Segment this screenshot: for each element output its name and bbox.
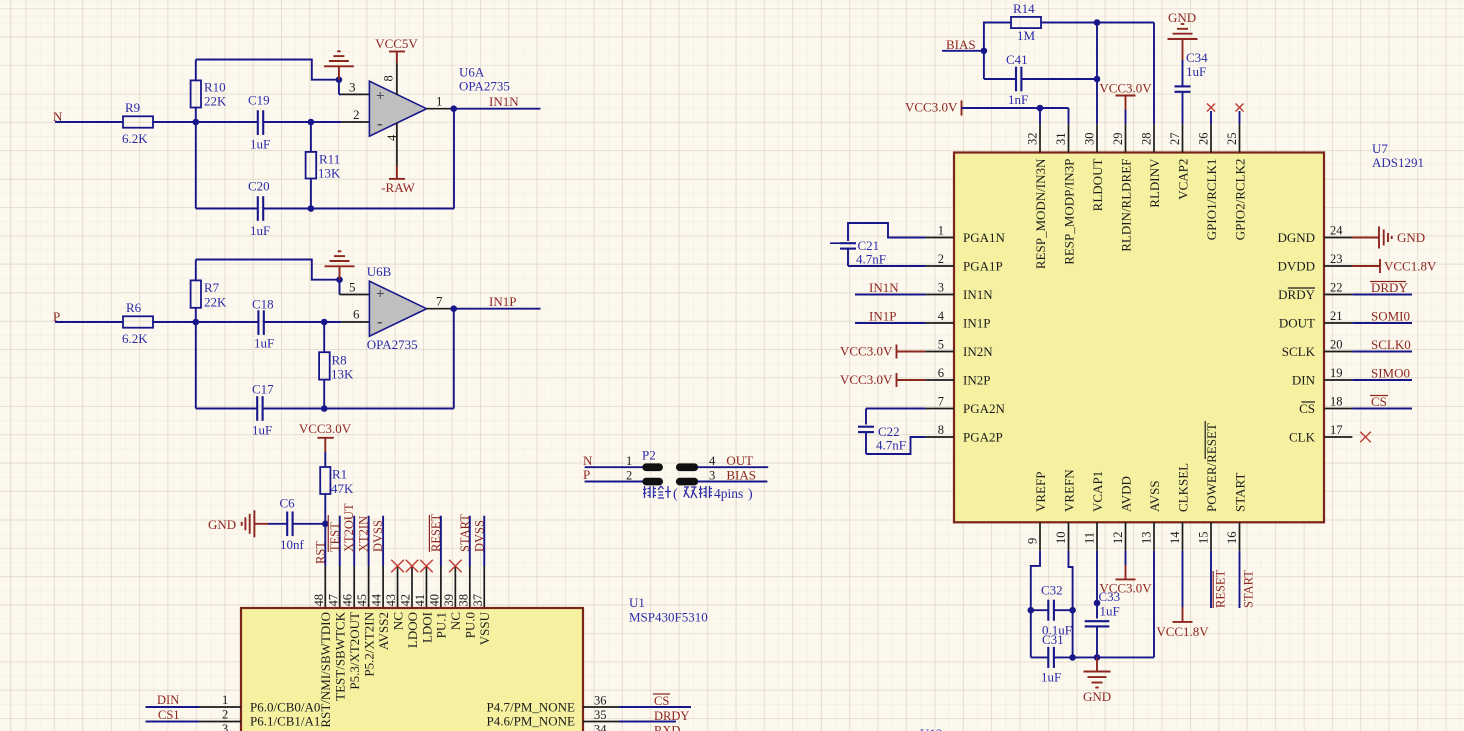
pin 24 stub (U7 right) bbox=[1324, 237, 1352, 239]
svg-text:CS: CS bbox=[1299, 401, 1315, 416]
svg-text:LDOI: LDOI bbox=[419, 612, 434, 643]
svg-text:31: 31 bbox=[1054, 133, 1068, 146]
pin 28 stub (U7 top) bbox=[1153, 124, 1155, 152]
net CS (U7 pin 18) bbox=[1352, 408, 1412, 410]
svg-text:VCAP1: VCAP1 bbox=[1090, 471, 1105, 512]
wire U1 pin 41 n/c bbox=[425, 566, 427, 608]
wire bottom rail U6A bbox=[263, 208, 454, 210]
pin 5 stub (U7 left) bbox=[926, 351, 954, 353]
net SCLK0 (U7 pin 20) bbox=[1352, 351, 1412, 353]
pin 16 stub (U7 bottom) bbox=[1239, 522, 1241, 550]
svg-text:LDOO: LDOO bbox=[405, 612, 420, 648]
svg-text:42: 42 bbox=[399, 594, 413, 607]
svg-text:P2: P2 bbox=[642, 448, 656, 463]
wire U7 pin 8 jog bbox=[866, 437, 926, 454]
svg-text:OUT: OUT bbox=[726, 453, 753, 468]
svg-text:5: 5 bbox=[938, 338, 944, 352]
svg-text:1: 1 bbox=[222, 693, 228, 707]
svg-text:22K: 22K bbox=[204, 94, 227, 109]
pin 3 stub (U7 left) bbox=[926, 294, 954, 296]
wire R6 to junction bbox=[153, 321, 196, 323]
svg-text:14: 14 bbox=[1168, 531, 1182, 544]
svg-text:22K: 22K bbox=[204, 295, 227, 310]
svg-text:47: 47 bbox=[326, 594, 340, 607]
junction bbox=[1069, 654, 1076, 661]
net DRDY (U7 pin 22) bbox=[1352, 294, 1412, 296]
svg-text:CS1: CS1 bbox=[158, 708, 180, 722]
svg-text:DVSS: DVSS bbox=[472, 520, 486, 552]
svg-text:1uF: 1uF bbox=[254, 336, 274, 351]
svg-text:(: ( bbox=[673, 487, 678, 502]
svg-text:9: 9 bbox=[1026, 538, 1040, 544]
svg-text:IN1P: IN1P bbox=[963, 315, 990, 330]
svg-text:SCLK0: SCLK0 bbox=[1371, 337, 1411, 352]
svg-text:): ) bbox=[748, 487, 753, 502]
svg-text:DRDY: DRDY bbox=[654, 709, 689, 723]
ground U6A bbox=[336, 76, 343, 83]
junction bbox=[1094, 76, 1101, 83]
wire U1 pin 40 bbox=[440, 516, 442, 566]
svg-text:19: 19 bbox=[1330, 366, 1343, 380]
svg-text:1: 1 bbox=[626, 454, 632, 468]
wire C19 to pin 2 bbox=[263, 121, 311, 123]
svg-text:27: 27 bbox=[1168, 133, 1182, 146]
svg-text:1uF: 1uF bbox=[1041, 670, 1061, 685]
wire feedback U6B bbox=[453, 309, 455, 409]
ground C6 bbox=[268, 523, 287, 525]
wire to U7 pin 32 bbox=[1039, 108, 1041, 124]
svg-text:48: 48 bbox=[312, 594, 326, 607]
wire feedback U6A bbox=[453, 109, 455, 209]
svg-text:PU.0: PU.0 bbox=[463, 612, 478, 638]
pin 9 stub (U7 bottom) bbox=[1039, 522, 1041, 550]
svg-text:R8: R8 bbox=[332, 353, 347, 368]
svg-text:SOMI0: SOMI0 bbox=[1371, 309, 1410, 324]
svg-text:OPA2735: OPA2735 bbox=[367, 337, 418, 352]
svg-text:3: 3 bbox=[938, 281, 944, 295]
svg-text:2: 2 bbox=[222, 708, 228, 722]
wire U7 pin 9 jog bbox=[1031, 551, 1040, 658]
svg-text:23: 23 bbox=[1330, 252, 1343, 266]
pin 4 stub (U7 left) bbox=[926, 322, 954, 324]
svg-text:C17: C17 bbox=[252, 382, 274, 397]
capacitor C33 bbox=[1096, 551, 1098, 619]
capacitor C34 bbox=[1182, 60, 1184, 86]
svg-text:44: 44 bbox=[370, 593, 384, 606]
svg-text:VREFP: VREFP bbox=[1033, 472, 1048, 512]
svg-text:PGA2P: PGA2P bbox=[963, 429, 1003, 444]
svg-text:C20: C20 bbox=[248, 179, 270, 194]
svg-text:43: 43 bbox=[384, 594, 398, 607]
svg-text:C19: C19 bbox=[248, 93, 270, 108]
svg-text:10nf: 10nf bbox=[280, 537, 305, 552]
svg-text:VCC5V: VCC5V bbox=[375, 36, 418, 51]
net IN1P to U7 pin 4 bbox=[855, 322, 926, 324]
pin 30 stub (U7 top) bbox=[1096, 124, 1098, 152]
capacitor C19 bbox=[196, 121, 258, 123]
svg-text:38: 38 bbox=[456, 594, 470, 607]
svg-text:SCLK: SCLK bbox=[1282, 344, 1316, 359]
junction bbox=[450, 305, 457, 312]
pin 18 stub (U7 right) bbox=[1324, 408, 1352, 410]
svg-text:36: 36 bbox=[594, 694, 607, 708]
svg-text:34: 34 bbox=[594, 723, 607, 731]
pin 17 stub (U7 right) bbox=[1324, 436, 1352, 438]
svg-text:6.2K: 6.2K bbox=[122, 331, 148, 346]
wire top rail U6B bbox=[196, 260, 340, 280]
svg-text:DIN: DIN bbox=[1292, 372, 1316, 387]
svg-text:7: 7 bbox=[436, 294, 443, 309]
svg-text:VREFN: VREFN bbox=[1061, 469, 1076, 512]
resistor R10 bbox=[195, 108, 197, 123]
IC U7 body bbox=[954, 153, 1324, 523]
junction bbox=[193, 119, 200, 126]
junction bbox=[308, 119, 315, 126]
svg-text:DIN: DIN bbox=[157, 693, 179, 707]
resistor R11 bbox=[310, 122, 312, 152]
svg-text:11: 11 bbox=[1083, 532, 1097, 544]
svg-text:DOUT: DOUT bbox=[1279, 315, 1315, 330]
wire C18 to pin 6 bbox=[264, 321, 324, 323]
op-amp U6A pin 3 bbox=[338, 80, 340, 95]
net START (U7 pin 16) bbox=[1239, 551, 1241, 608]
wire P2 pin 1 bbox=[585, 466, 643, 468]
pin 25 stub (U7 top) bbox=[1239, 124, 1241, 152]
label header annotation bbox=[643, 486, 656, 498]
svg-text:C32: C32 bbox=[1041, 583, 1063, 598]
svg-text:DVSS: DVSS bbox=[371, 520, 385, 552]
svg-text:4: 4 bbox=[385, 134, 399, 141]
wire U1 pin 43 n/c bbox=[397, 566, 399, 608]
wire U1 pin 35 / net DRDY bbox=[583, 721, 619, 723]
pin 13 stub (U7 bottom) bbox=[1153, 522, 1155, 550]
wire U7 pin 7 bbox=[866, 408, 926, 410]
pin 23 stub (U7 right) bbox=[1324, 265, 1352, 267]
svg-text:ADS1291: ADS1291 bbox=[1372, 155, 1424, 170]
svg-text:21: 21 bbox=[1330, 309, 1343, 323]
svg-text:RESP_MODN/IN3N: RESP_MODN/IN3N bbox=[1033, 158, 1048, 269]
svg-text:CLK: CLK bbox=[1289, 429, 1316, 444]
svg-text:25: 25 bbox=[1225, 133, 1239, 146]
junction bbox=[321, 319, 328, 326]
svg-text:C6: C6 bbox=[280, 496, 296, 511]
svg-text:IN1P: IN1P bbox=[869, 309, 896, 324]
svg-text:7: 7 bbox=[938, 395, 944, 409]
svg-text:U7: U7 bbox=[1372, 141, 1388, 156]
net SIMO0 (U7 pin 19) bbox=[1352, 379, 1412, 381]
svg-text:41: 41 bbox=[413, 594, 427, 607]
capacitor C6 bbox=[293, 523, 326, 525]
wire P2 pin 4 / net OUT bbox=[698, 466, 769, 468]
svg-text:DGND: DGND bbox=[1277, 230, 1315, 245]
svg-text:START: START bbox=[1232, 473, 1247, 512]
svg-text:START: START bbox=[1242, 570, 1256, 608]
svg-text:RLDOUT: RLDOUT bbox=[1090, 159, 1105, 212]
svg-text:RXD: RXD bbox=[654, 724, 680, 731]
svg-text:IN1P: IN1P bbox=[489, 294, 516, 309]
svg-text:GPIO1/RCLK1: GPIO1/RCLK1 bbox=[1204, 159, 1219, 241]
svg-text:C34: C34 bbox=[1186, 50, 1208, 65]
pin 6 stub (U7 left) bbox=[926, 379, 954, 381]
svg-text:6: 6 bbox=[353, 307, 360, 322]
pin 8 stub (U7 left) bbox=[926, 436, 954, 438]
svg-text:POWER/RESET: POWER/RESET bbox=[1204, 423, 1219, 512]
svg-text:U6A: U6A bbox=[459, 65, 485, 80]
wire to U7 pin 31 bbox=[1068, 108, 1070, 124]
wire N input bbox=[55, 121, 123, 123]
svg-text:PGA1N: PGA1N bbox=[963, 230, 1006, 245]
svg-text:P4.6/PM_NONE: P4.6/PM_NONE bbox=[487, 714, 576, 729]
svg-text:4.7nF: 4.7nF bbox=[856, 252, 886, 267]
resistor R1 bbox=[324, 452, 326, 467]
op-amp U6A pin 2 bbox=[311, 121, 341, 123]
svg-text:P4.7/PM_NONE: P4.7/PM_NONE bbox=[487, 699, 576, 714]
svg-text:N: N bbox=[583, 453, 593, 468]
svg-text:47K: 47K bbox=[331, 481, 354, 496]
svg-text:3: 3 bbox=[709, 468, 715, 482]
svg-text:32: 32 bbox=[1026, 133, 1040, 146]
svg-text:AVSS2: AVSS2 bbox=[376, 612, 391, 650]
capacitor C18 bbox=[196, 321, 259, 323]
svg-text:1uF: 1uF bbox=[250, 223, 270, 238]
svg-text:BIAS: BIAS bbox=[726, 467, 756, 482]
junction bbox=[193, 319, 200, 326]
svg-text:1uF: 1uF bbox=[1100, 604, 1120, 619]
op-amp U6B pin 6 bbox=[324, 321, 341, 323]
svg-text:VCC3.0V: VCC3.0V bbox=[299, 421, 352, 436]
svg-text:6.2K: 6.2K bbox=[122, 131, 148, 146]
op-amp U6A bbox=[369, 81, 426, 136]
wire P2 pin 2 bbox=[585, 481, 643, 483]
svg-text:R14: R14 bbox=[1013, 1, 1035, 16]
capacitor C21 bbox=[840, 243, 856, 248]
svg-text:START: START bbox=[458, 514, 472, 552]
svg-text:DVDD: DVDD bbox=[1277, 258, 1315, 273]
net SOMI0 (U7 pin 21) bbox=[1352, 322, 1412, 324]
svg-text:R7: R7 bbox=[204, 280, 220, 295]
svg-text:P6.1/CB1/A1: P6.1/CB1/A1 bbox=[250, 714, 320, 729]
op-amp U6A pin 1 bbox=[427, 108, 454, 110]
wire U1 pin 39 n/c bbox=[454, 566, 456, 608]
svg-text:IN2P: IN2P bbox=[963, 372, 990, 387]
svg-text:29: 29 bbox=[1111, 133, 1125, 146]
capacitor C32 bbox=[1031, 609, 1049, 611]
wire U7 pin 2 bbox=[848, 265, 926, 267]
svg-text:-: - bbox=[377, 312, 383, 331]
junction bbox=[1094, 654, 1101, 661]
wire P2 pin 3 / net BIAS bbox=[698, 481, 768, 483]
svg-text:RLDIN/RLDREF: RLDIN/RLDREF bbox=[1118, 159, 1133, 252]
svg-text:VCAP2: VCAP2 bbox=[1175, 159, 1190, 200]
pin 26 stub (U7 top) bbox=[1210, 124, 1212, 152]
svg-text:SIMO0: SIMO0 bbox=[1371, 366, 1410, 381]
svg-text:OPA2735: OPA2735 bbox=[459, 79, 510, 94]
wire U1 pin 45 bbox=[368, 516, 370, 566]
power VCC3.0V (U7 pin 12) bbox=[1125, 551, 1127, 565]
junction bbox=[308, 205, 315, 212]
svg-text:4pins: 4pins bbox=[714, 486, 743, 501]
svg-text:CS: CS bbox=[654, 694, 669, 708]
power -RAW / pin 4 bbox=[396, 123, 398, 166]
pin 20 stub (U7 right) bbox=[1324, 351, 1352, 353]
svg-text:+: + bbox=[376, 89, 385, 105]
junction bbox=[981, 48, 988, 55]
junction bbox=[450, 105, 457, 112]
svg-text:P6.0/CB0/A0: P6.0/CB0/A0 bbox=[250, 699, 320, 714]
svg-text:RLDINV: RLDINV bbox=[1147, 158, 1162, 208]
pin 19 stub (U7 right) bbox=[1324, 379, 1352, 381]
svg-text:NC: NC bbox=[390, 612, 405, 630]
svg-text:VCC3.0V: VCC3.0V bbox=[905, 100, 958, 115]
no-connect U7 pin 25 bbox=[1236, 104, 1244, 112]
resistor R6 bbox=[123, 316, 153, 327]
svg-text:4.7nF: 4.7nF bbox=[876, 438, 906, 453]
svg-text:10: 10 bbox=[1054, 532, 1068, 545]
svg-text:8: 8 bbox=[938, 423, 944, 437]
resistor R7 bbox=[195, 308, 197, 322]
wire U1 pin 2 / net CS1 bbox=[146, 721, 200, 723]
svg-text:35: 35 bbox=[594, 708, 607, 722]
pin 15 stub (U7 bottom) bbox=[1210, 522, 1212, 550]
svg-text:1uF: 1uF bbox=[252, 423, 272, 438]
svg-text:4: 4 bbox=[938, 309, 945, 323]
svg-text:NC: NC bbox=[448, 612, 463, 630]
junction bbox=[1069, 607, 1076, 614]
pin 2 stub (U7 left) bbox=[926, 265, 954, 267]
capacitor C31 bbox=[1031, 656, 1049, 658]
pin 11 stub (U7 bottom) bbox=[1096, 522, 1098, 550]
wire U1 pin 47 bbox=[339, 516, 341, 566]
resistor R9 bbox=[123, 116, 153, 127]
power VCC1.8V (U7 pin 23) bbox=[1352, 265, 1380, 267]
svg-text:16: 16 bbox=[1225, 532, 1239, 545]
svg-text:28: 28 bbox=[1140, 133, 1154, 146]
svg-text:R10: R10 bbox=[204, 80, 226, 95]
svg-text:C18: C18 bbox=[252, 297, 274, 312]
svg-text:1uF: 1uF bbox=[250, 137, 270, 152]
svg-text:2: 2 bbox=[626, 468, 632, 482]
svg-text:PGA2N: PGA2N bbox=[963, 401, 1006, 416]
svg-text:GND: GND bbox=[1168, 10, 1196, 25]
svg-text:U12: U12 bbox=[920, 726, 942, 731]
pin 27 stub (U7 top) bbox=[1182, 124, 1184, 152]
svg-text:40: 40 bbox=[427, 594, 441, 607]
wire top rail U6A bbox=[196, 60, 339, 80]
wire U1 pin 44 bbox=[382, 516, 384, 566]
svg-text:U6B: U6B bbox=[367, 264, 392, 279]
svg-text:GND: GND bbox=[208, 517, 236, 532]
svg-text:XT2OUT: XT2OUT bbox=[342, 503, 356, 552]
pin 1 stub (U7 left) bbox=[926, 237, 954, 239]
op-amp U6B pin 5 bbox=[339, 280, 341, 295]
svg-text:C31: C31 bbox=[1042, 632, 1064, 647]
svg-text:VCC3.0V: VCC3.0V bbox=[840, 344, 893, 359]
svg-text:TEST/SBWTCK: TEST/SBWTCK bbox=[333, 611, 348, 700]
svg-text:VSSU: VSSU bbox=[477, 611, 492, 645]
wire VREFN rail bbox=[1072, 610, 1074, 657]
svg-text:R1: R1 bbox=[332, 467, 347, 482]
svg-text:MSP430F5310: MSP430F5310 bbox=[629, 610, 708, 625]
wire U1 pin 42 n/c bbox=[411, 566, 413, 608]
svg-text:15: 15 bbox=[1197, 532, 1211, 545]
svg-text:XT2IN: XT2IN bbox=[357, 516, 371, 552]
op-amp U6B pin 7 bbox=[427, 308, 454, 310]
junction bbox=[322, 521, 329, 528]
svg-text:6: 6 bbox=[938, 366, 944, 380]
node IN1N bbox=[454, 108, 541, 110]
svg-text:37: 37 bbox=[471, 594, 485, 607]
node IN1P bbox=[454, 308, 541, 310]
pin 12 stub (U7 bottom) bbox=[1125, 522, 1127, 550]
svg-text:2: 2 bbox=[938, 252, 944, 266]
svg-text:13: 13 bbox=[1140, 532, 1154, 545]
svg-text:P5.3/XT2OUT: P5.3/XT2OUT bbox=[347, 612, 362, 690]
pin 7 stub (U7 left) bbox=[926, 408, 954, 410]
svg-text:+: + bbox=[376, 287, 385, 303]
wire U1 pin 46 bbox=[353, 516, 355, 566]
svg-text:12: 12 bbox=[1111, 532, 1125, 545]
pin 29 stub (U7 top) bbox=[1125, 124, 1127, 152]
pin 22 stub (U7 right) bbox=[1324, 294, 1352, 296]
svg-text:-RAW: -RAW bbox=[381, 180, 415, 195]
svg-text:IN1N: IN1N bbox=[963, 287, 993, 302]
svg-text:1M: 1M bbox=[1017, 28, 1036, 43]
junction bbox=[1094, 19, 1101, 26]
svg-text:AVDD: AVDD bbox=[1118, 476, 1133, 512]
svg-text:2: 2 bbox=[353, 107, 360, 122]
svg-text:VCC3.0V: VCC3.0V bbox=[840, 372, 893, 387]
ground U6B bbox=[336, 276, 343, 283]
svg-text:DRDY: DRDY bbox=[1371, 280, 1408, 295]
wire U7 pin 10 jog bbox=[1069, 551, 1073, 611]
wire left vertical U6B bbox=[195, 322, 197, 409]
wire to U7 pin 30 bbox=[1096, 23, 1098, 125]
net RESET (U7 pin 15) bbox=[1210, 551, 1212, 608]
svg-text:RST: RST bbox=[313, 541, 327, 564]
wire U1 pin 48 RST bbox=[324, 524, 326, 566]
ground (U7 bottom) bbox=[1096, 657, 1098, 671]
IC U1 body bbox=[241, 608, 583, 731]
svg-text:3: 3 bbox=[349, 80, 356, 95]
wire U1 pin 36 / net CS bbox=[583, 706, 619, 708]
svg-text:RESET: RESET bbox=[429, 513, 443, 552]
svg-text:1nF: 1nF bbox=[1008, 92, 1028, 107]
no-connect U7 pin 26 bbox=[1207, 104, 1215, 112]
pin 31 stub (U7 top) bbox=[1068, 124, 1070, 152]
svg-text:VCC3.0V: VCC3.0V bbox=[1099, 581, 1152, 596]
svg-text:46: 46 bbox=[341, 594, 355, 607]
pin 14 stub (U7 bottom) bbox=[1182, 522, 1184, 550]
junction bbox=[321, 405, 328, 412]
capacitor C20 bbox=[196, 208, 258, 210]
capacitor C41 bbox=[983, 51, 985, 79]
svg-text:PU.1: PU.1 bbox=[434, 612, 449, 638]
resistor R8 bbox=[323, 322, 325, 352]
svg-text:P: P bbox=[583, 467, 590, 482]
wire U7 pin 1 jog bbox=[848, 223, 926, 241]
svg-text:18: 18 bbox=[1330, 395, 1343, 409]
wire U1 pin 1 / net DIN bbox=[146, 706, 200, 708]
svg-text:4: 4 bbox=[709, 454, 716, 468]
op-amp U6B bbox=[369, 281, 426, 336]
resistor R14 bbox=[984, 23, 1011, 51]
svg-text:IN2N: IN2N bbox=[963, 344, 993, 359]
svg-text:17: 17 bbox=[1330, 423, 1343, 437]
svg-text:8: 8 bbox=[382, 75, 396, 81]
svg-text:RESP_MODP/IN3P: RESP_MODP/IN3P bbox=[1061, 159, 1076, 265]
svg-text:P5.2/XT2IN: P5.2/XT2IN bbox=[361, 611, 376, 676]
svg-text:IN1N: IN1N bbox=[489, 94, 519, 109]
